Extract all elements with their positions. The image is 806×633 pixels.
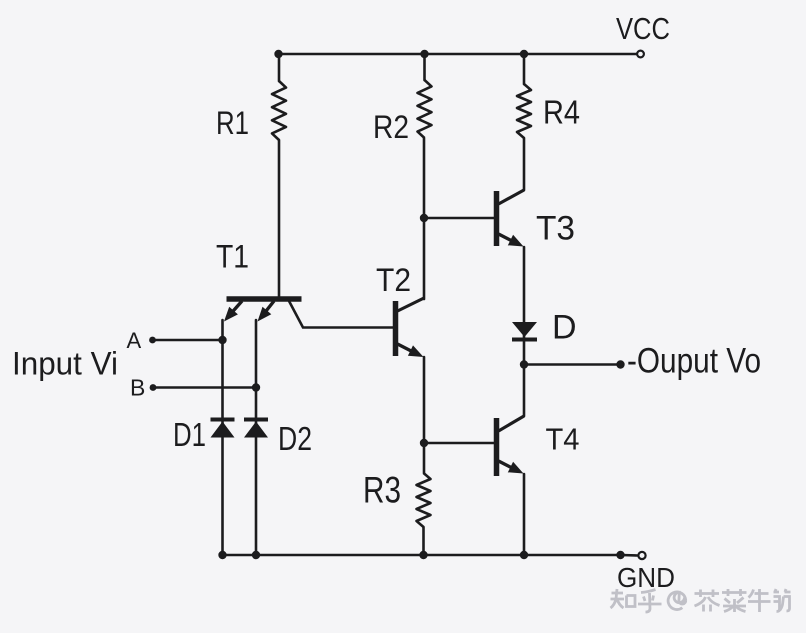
GND open terminal [638, 552, 645, 559]
牛 [748, 589, 771, 612]
wire T3 emitter down through diode D to output node [523, 247, 526, 364]
node VCC/R4 [520, 50, 528, 58]
wire output node to terminal [524, 363, 619, 366]
svg-text:R1: R1 [216, 105, 249, 141]
wire T1 collector lead to T2 base [289, 301, 394, 328]
svg-text:T1: T1 [216, 239, 249, 275]
菜 [722, 589, 747, 612]
watermark 知乎 @芥菜牛筋 [611, 589, 791, 612]
svg-text:Input Vi: Input Vi [12, 346, 118, 382]
wire R1 bottom lead to T1 base [278, 140, 281, 298]
乎 [638, 590, 662, 613]
筋 [774, 589, 791, 612]
node T4 base / R3 top [420, 439, 428, 447]
resistor R1 [272, 81, 286, 140]
node VCC/R2 [420, 50, 428, 58]
wire GND bottom rail [223, 554, 620, 557]
wire T4 collector up to output node [523, 365, 526, 417]
node ground rail D1 [218, 551, 226, 559]
node junction dots [149, 50, 625, 559]
wire R4 top lead [523, 54, 526, 84]
diode D2 (input clamp, anode down, cathode up) [244, 420, 268, 438]
wire R1 top lead [278, 54, 281, 81]
svg-text:D2: D2 [278, 420, 312, 457]
svg-text:D1: D1 [173, 416, 206, 453]
diode D1 (input clamp, anode down, cathode up) [211, 420, 235, 438]
wire R2 top lead [423, 54, 426, 80]
知 [611, 589, 636, 608]
transistor T3 (upper output transistor) [497, 190, 525, 247]
node ground rail T4 [520, 551, 528, 559]
svg-text:B: B [130, 375, 145, 401]
VCC open terminal [637, 51, 644, 58]
@ [668, 592, 686, 610]
diode D (level shifting diode, pointing down) [512, 322, 537, 340]
resistor R2 [418, 80, 432, 138]
wire T4 base from node [424, 442, 495, 445]
wire R3 bottom lead to ground rail [422, 527, 425, 555]
svg-text:R3: R3 [363, 470, 401, 511]
wire input A [153, 339, 223, 342]
svg-text:-Ouput Vo: -Ouput Vo [627, 342, 761, 381]
芥 [695, 590, 720, 612]
transistor T4 (lower output transistor) [497, 416, 525, 476]
wire GND terminal stub [621, 554, 638, 557]
wire T2 emitter down to T4 base node and R3 [423, 357, 426, 473]
node ground terminal dot [616, 551, 624, 559]
wire T1 emitter 1 vertical through D1 to ground rail [221, 320, 224, 555]
wire T3 base from node on R2 line [424, 217, 495, 220]
node input A terminal dot [149, 337, 156, 344]
wire input B [153, 386, 256, 389]
transistor T2 (phase splitter) [396, 298, 425, 357]
resistor R4 [517, 84, 531, 138]
svg-text:GND: GND [617, 562, 675, 593]
svg-text:VCC: VCC [616, 11, 670, 46]
wire R2 bottom lead to T2 collector node [423, 138, 426, 299]
node VCC/R1 corner [274, 50, 282, 58]
svg-text:D: D [552, 309, 577, 347]
node input B terminal dot [150, 384, 157, 391]
transistor T1 (multi-emitter input transistor) [224, 299, 302, 322]
node output terminal dot [616, 360, 624, 368]
svg-text:T2: T2 [376, 262, 411, 298]
node ground rail R3 [419, 551, 427, 559]
svg-text:R2: R2 [373, 109, 409, 145]
node T3 base / R2 line [420, 214, 428, 222]
node input A junction [218, 336, 226, 344]
svg-text:T3: T3 [536, 210, 575, 248]
node input B junction [252, 383, 260, 391]
wire T4 emitter down to ground rail [523, 474, 526, 555]
svg-text:A: A [127, 328, 142, 353]
node output junction [520, 360, 528, 368]
wire R4 bottom lead to T3 collector [523, 138, 526, 190]
wire T1 emitter 2 vertical through D2 to ground rail [255, 320, 258, 555]
node ground rail D2 [252, 551, 260, 559]
svg-text:T4: T4 [546, 422, 580, 457]
wire VCC top rail [279, 53, 637, 56]
resistor R3 [417, 473, 431, 527]
svg-text:R4: R4 [543, 94, 580, 131]
